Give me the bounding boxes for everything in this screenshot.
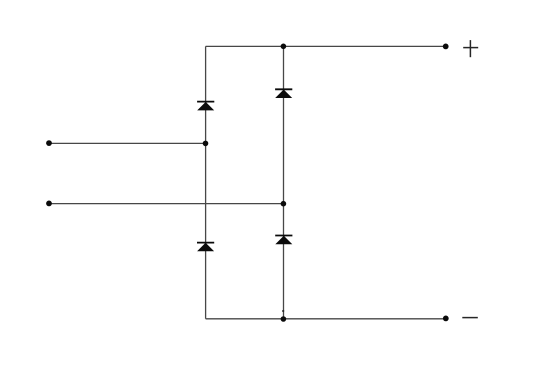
wire: top rail from left branch corner to + terminal xyxy=(206,45,446,47)
diode D1 (left upper, anode bottom, cathode top) xyxy=(197,102,214,111)
stray ink mark on right branch above bottom junction xyxy=(282,310,284,312)
wire: AC input 2 lead xyxy=(49,203,284,205)
diode D4 (right lower, anode bottom, cathode top) xyxy=(275,236,292,245)
wire: right vertical branch (D2/D4 leg) xyxy=(283,46,285,319)
wire: left vertical branch (D1/D3 leg) xyxy=(205,46,207,318)
junction dot: input 2 to right branch xyxy=(281,201,287,207)
diode D3 (left lower, anode bottom, cathode top) xyxy=(197,243,214,252)
terminal dot: AC input 2 xyxy=(46,201,52,207)
label: + polarity sign xyxy=(463,40,478,57)
label: - polarity sign xyxy=(462,317,478,319)
junction dot: right branch to top rail xyxy=(281,44,287,50)
terminal dot: + output xyxy=(443,44,449,50)
terminal dot: - output xyxy=(443,316,449,322)
junction dot: right branch to bottom rail xyxy=(281,316,287,322)
wire: AC input 1 lead xyxy=(49,142,206,144)
terminal dot: AC input 1 xyxy=(46,140,52,146)
diode D2 (right upper, anode bottom, cathode top) xyxy=(275,89,292,98)
junction dot: input 1 to left branch xyxy=(203,141,209,147)
wire: bottom rail from left branch corner to - terminal xyxy=(206,318,446,320)
